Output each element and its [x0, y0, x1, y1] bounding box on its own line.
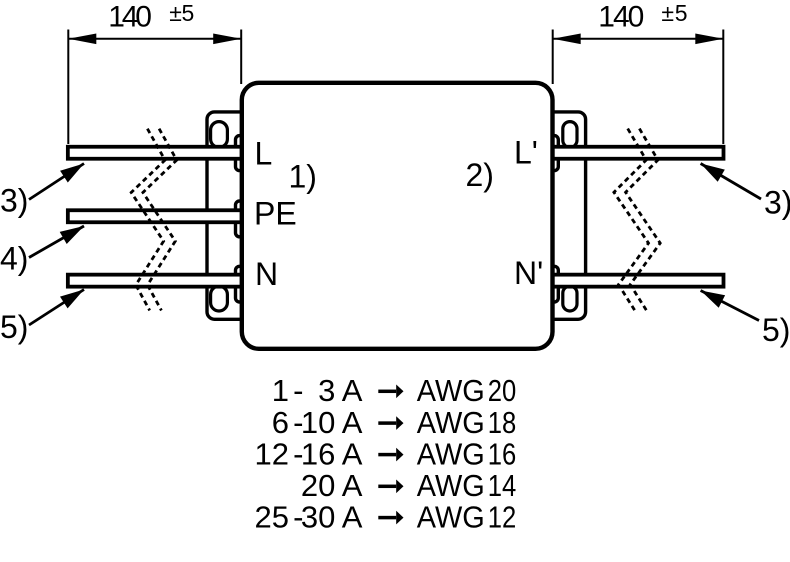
- svg-text:N: N: [255, 256, 278, 292]
- svg-text:PE: PE: [254, 196, 297, 232]
- break mark left: [131, 129, 177, 311]
- terminal N: [236, 266, 249, 302]
- svg-text:A: A: [342, 468, 363, 503]
- terminal L: [236, 136, 249, 171]
- svg-text:1): 1): [289, 159, 317, 195]
- svg-text:20: 20: [301, 468, 335, 503]
- svg-text:30: 30: [301, 499, 335, 534]
- svg-text:4): 4): [0, 241, 28, 277]
- svg-text:12: 12: [488, 499, 517, 534]
- wire PE: [68, 210, 243, 222]
- svg-text:140: 140: [108, 1, 152, 34]
- svg-text:3): 3): [764, 185, 790, 221]
- wire L: [68, 147, 243, 159]
- svg-text:±5: ±5: [661, 0, 687, 26]
- terminal PE: [236, 201, 249, 237]
- svg-text:1: 1: [272, 373, 289, 408]
- svg-text:±5: ±5: [169, 0, 194, 26]
- svg-text:A: A: [342, 436, 363, 471]
- svg-text:16: 16: [301, 436, 335, 471]
- svg-text:14: 14: [488, 468, 517, 503]
- break mark right: [614, 129, 660, 311]
- svg-text:AWG: AWG: [417, 499, 485, 534]
- svg-text:N': N': [514, 255, 543, 291]
- svg-text:AWG: AWG: [417, 373, 485, 408]
- svg-text:2): 2): [466, 157, 494, 193]
- svg-text:L: L: [255, 136, 273, 172]
- AWG table row 3: [255, 436, 363, 471]
- svg-text:5): 5): [0, 309, 28, 345]
- right flange top slot: [563, 122, 577, 148]
- terminal L': [546, 136, 558, 171]
- svg-text:-: -: [293, 373, 303, 408]
- left mounting flange: [207, 112, 248, 319]
- svg-text:L': L': [514, 134, 538, 170]
- AWG table row 5: [255, 499, 363, 534]
- right flange bottom slot: [563, 286, 577, 311]
- svg-text:20: 20: [488, 373, 517, 408]
- svg-text:3: 3: [318, 373, 335, 408]
- svg-text:16: 16: [488, 436, 517, 471]
- svg-text:140: 140: [598, 1, 644, 34]
- svg-text:AWG: AWG: [417, 405, 485, 440]
- svg-text:AWG: AWG: [417, 468, 485, 503]
- wire L': [552, 147, 724, 159]
- svg-text:A: A: [342, 373, 363, 408]
- wire N: [68, 275, 243, 287]
- AWG table row 1: [272, 373, 363, 408]
- AWG table row 2: [272, 405, 363, 440]
- dimension right 140±5: [553, 30, 724, 145]
- AWG table row 4: [301, 468, 363, 503]
- svg-text:A: A: [342, 405, 363, 440]
- right mounting flange: [546, 112, 586, 319]
- wire N': [552, 275, 724, 287]
- svg-text:10: 10: [301, 405, 335, 440]
- svg-text:6: 6: [272, 405, 289, 440]
- svg-text:25: 25: [255, 499, 289, 534]
- svg-text:12: 12: [255, 436, 289, 471]
- svg-text:3): 3): [0, 183, 28, 219]
- left flange top slot: [211, 122, 228, 148]
- svg-text:A: A: [342, 499, 363, 534]
- svg-text:18: 18: [488, 405, 517, 440]
- dimension left 140±5: [68, 30, 241, 145]
- filter body U1: [242, 83, 553, 349]
- svg-text:AWG: AWG: [417, 436, 485, 471]
- terminal N': [546, 266, 558, 302]
- svg-text:5): 5): [762, 312, 790, 348]
- left flange bottom slot: [211, 286, 228, 311]
